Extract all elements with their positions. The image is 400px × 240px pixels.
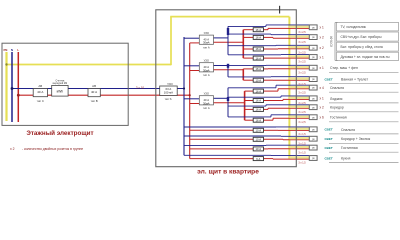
svg-text:16 А: 16 А xyxy=(256,118,262,122)
svg-text:3 х 1,5: 3 х 1,5 xyxy=(298,83,306,86)
svg-text:меркурий 2М: меркурий 2М xyxy=(53,82,68,85)
svg-text:16 А: 16 А xyxy=(256,99,262,103)
svg-text:30мА: 30мА xyxy=(203,101,210,105)
svg-text:40 А: 40 А xyxy=(204,37,210,41)
svg-text:Кухня: Кухня xyxy=(341,157,350,161)
svg-text:Гостинная: Гостинная xyxy=(341,146,358,150)
svg-text:3 х 10: 3 х 10 xyxy=(136,85,145,89)
svg-text:эл. щит в квартире: эл. щит в квартире xyxy=(197,168,259,175)
svg-text:тип В: тип В xyxy=(90,99,97,103)
svg-text:кWh: кWh xyxy=(57,90,64,94)
svg-text:16 А: 16 А xyxy=(256,67,262,71)
svg-text:3 х 2,5: 3 х 2,5 xyxy=(298,91,306,94)
svg-text:СВЧ+эл.дух. Быт. приборы: СВЧ+эл.дух. Быт. приборы xyxy=(341,35,383,39)
svg-text:40 А: 40 А xyxy=(37,90,43,94)
svg-text:16 А: 16 А xyxy=(256,47,262,51)
svg-text:16 А: 16 А xyxy=(256,36,262,40)
svg-text:3 х 1,5: 3 х 1,5 xyxy=(298,162,306,165)
svg-text:Стир. маш + фен: Стир. маш + фен xyxy=(330,66,358,70)
svg-text:Этажный электрощит: Этажный электрощит xyxy=(26,129,93,137)
svg-text:100 мА: 100 мА xyxy=(164,91,173,95)
svg-text:УЗО: УЗО xyxy=(204,59,209,63)
svg-text:16 А: 16 А xyxy=(256,56,262,60)
svg-text:Коридор: Коридор xyxy=(330,106,344,110)
svg-text:х 1: х 1 xyxy=(320,26,324,30)
svg-text:3 х 1,5: 3 х 1,5 xyxy=(298,133,306,136)
svg-text:- количество двойных розеток в: - количество двойных розеток в группе xyxy=(22,147,83,151)
svg-text:х 1: х 1 xyxy=(320,97,324,101)
svg-text:16 А: 16 А xyxy=(256,28,262,32)
svg-text:х 1: х 1 xyxy=(320,66,324,70)
svg-text:3 х 2,5: 3 х 2,5 xyxy=(298,111,306,114)
svg-text:УЗО: УЗО xyxy=(204,31,209,35)
svg-text:6 А: 6 А xyxy=(256,157,260,161)
svg-text:Лоджия: Лоджия xyxy=(330,97,343,101)
svg-text:х 1: х 1 xyxy=(320,55,324,59)
svg-text:х 2: х 2 xyxy=(320,36,324,40)
svg-text:Спальня: Спальня xyxy=(330,86,344,90)
svg-text:тип А: тип А xyxy=(203,106,210,110)
svg-text:30мА: 30мА xyxy=(203,68,210,72)
svg-text:3 х 2,5: 3 х 2,5 xyxy=(298,71,306,74)
svg-text:тип А: тип А xyxy=(203,45,210,49)
svg-text:10 А: 10 А xyxy=(256,129,262,133)
svg-text:АВ: АВ xyxy=(92,84,96,88)
svg-text:3 х 2,5: 3 х 2,5 xyxy=(298,41,306,44)
svg-text:3 х 1,5: 3 х 1,5 xyxy=(298,142,306,145)
svg-text:30мА: 30мА xyxy=(203,41,210,45)
svg-text:х 6: х 6 xyxy=(320,116,324,120)
svg-text:СВЕТ: СВЕТ xyxy=(325,156,333,160)
svg-text:Коридор + Звонок: Коридор + Звонок xyxy=(341,137,371,141)
svg-text:10 А: 10 А xyxy=(256,138,262,142)
svg-text:10 А: 10 А xyxy=(256,147,262,151)
svg-text:Духовка + эл. поджиг газ пов-т: Духовка + эл. поджиг газ пов-ты xyxy=(341,55,391,59)
svg-text:УЗО: УЗО xyxy=(204,92,209,96)
svg-text:40 А: 40 А xyxy=(91,90,97,94)
svg-text:3 х 2,5: 3 х 2,5 xyxy=(298,121,306,124)
svg-text:3 х 2,5: 3 х 2,5 xyxy=(298,51,306,54)
svg-text:40 А: 40 А xyxy=(204,65,210,69)
svg-text:3 х 2,5: 3 х 2,5 xyxy=(298,31,306,34)
svg-text:PE: PE xyxy=(3,48,7,52)
svg-text:СВЕТ: СВЕТ xyxy=(325,77,333,81)
svg-text:СВЕТ: СВЕТ xyxy=(325,137,333,141)
svg-text:тип S: тип S xyxy=(164,97,171,101)
svg-text:10 А: 10 А xyxy=(256,78,262,82)
svg-text:тип А: тип А xyxy=(203,73,210,77)
svg-text:Спальня: Спальня xyxy=(341,128,355,132)
svg-text:АВ: АВ xyxy=(38,84,42,88)
svg-text:УЗО: УЗО xyxy=(167,82,173,86)
svg-text:L: L xyxy=(17,48,19,52)
svg-text:N: N xyxy=(11,48,13,52)
svg-text:х 2: х 2 xyxy=(320,46,324,50)
svg-text:16 А: 16 А xyxy=(256,89,262,93)
svg-text:ТV, холодильник: ТV, холодильник xyxy=(341,25,367,29)
svg-text:16 А: 16 А xyxy=(256,108,262,112)
svg-text:КУХНЯ: КУХНЯ xyxy=(330,35,334,46)
svg-text:3 х 1,5: 3 х 1,5 xyxy=(298,151,306,154)
svg-text:40 А: 40 А xyxy=(204,98,210,102)
svg-text:СВЕТ: СВЕТ xyxy=(325,146,333,150)
svg-text:3 х 2,5: 3 х 2,5 xyxy=(298,102,306,105)
svg-text:Ванная + Туалет: Ванная + Туалет xyxy=(341,78,368,82)
svg-text:х 4: х 4 xyxy=(320,86,324,90)
svg-text:СВЕТ: СВЕТ xyxy=(325,128,333,132)
svg-text:х 2: х 2 xyxy=(320,106,324,110)
svg-text:3 х 2,5: 3 х 2,5 xyxy=(298,61,306,64)
svg-text:тип C: тип C xyxy=(37,99,44,103)
svg-text:Быт. приборы у обед. стола: Быт. приборы у обед. стола xyxy=(341,45,383,49)
svg-text:х 2: х 2 xyxy=(10,147,15,151)
svg-text:Гостинная: Гостинная xyxy=(330,116,347,120)
